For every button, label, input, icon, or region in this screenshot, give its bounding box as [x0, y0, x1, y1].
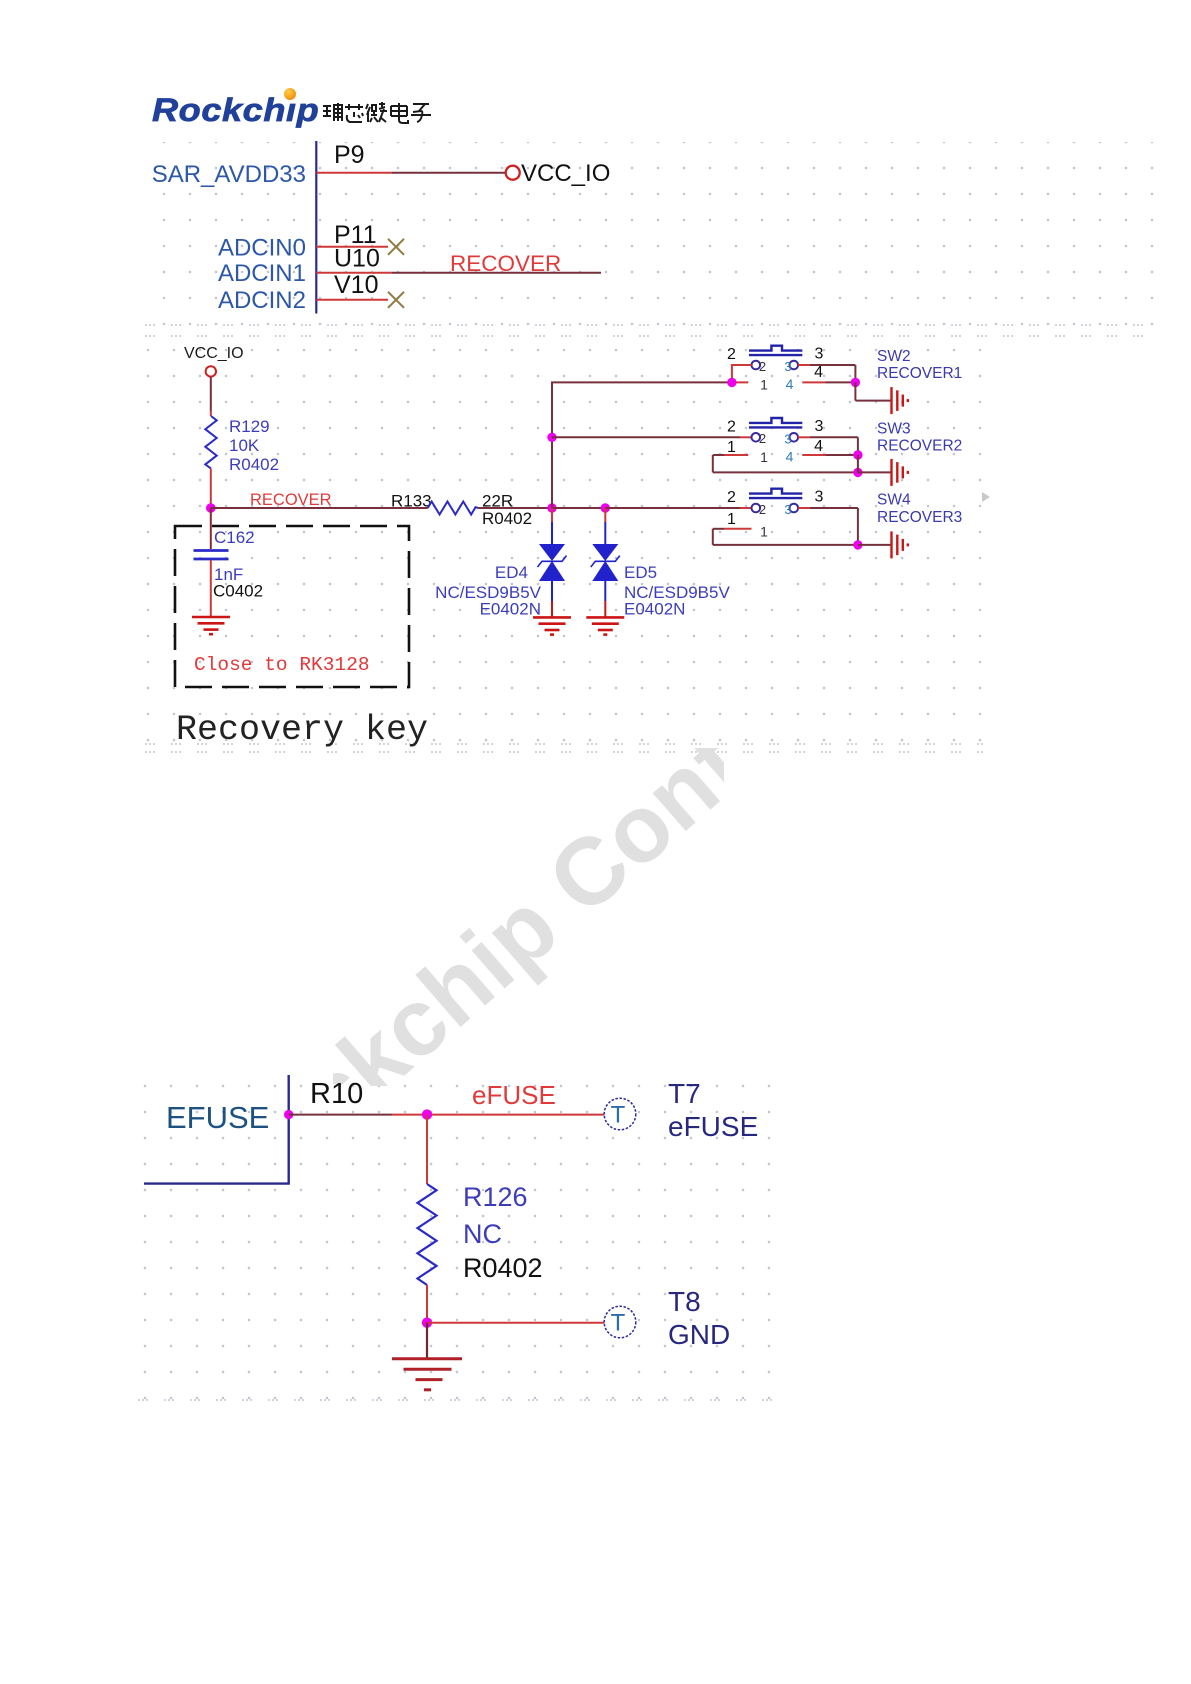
wire RECOVER mid2 [552, 507, 605, 509]
svg-text:VCC_IO: VCC_IO [521, 160, 610, 187]
ground ED4 [533, 617, 571, 634]
svg-text:R126: R126 [463, 1182, 528, 1212]
svg-text:SW4: SW4 [877, 492, 911, 509]
svg-text:GND: GND [668, 1319, 730, 1350]
svg-text:E0402N: E0402N [480, 600, 541, 619]
label SW2 RECOVER1 [877, 348, 962, 382]
pin number V10 [334, 271, 378, 299]
svg-text:1: 1 [760, 377, 768, 393]
svg-text:R0402: R0402 [463, 1253, 543, 1283]
junction SW4 gnd [853, 540, 862, 549]
wire SW3 pin1 loop [713, 455, 858, 472]
svg-text:T8: T8 [668, 1286, 701, 1317]
wire SW4 pin1 stub [713, 528, 752, 530]
svg-text:U10: U10 [334, 245, 380, 273]
svg-text:3: 3 [815, 418, 824, 435]
wire RECOVER net top [392, 272, 601, 274]
wire R126 to junction [426, 1285, 428, 1323]
esd diode ED5 [591, 508, 620, 617]
pin number R10 [310, 1078, 363, 1110]
svg-text:NC: NC [463, 1219, 502, 1249]
svg-text:RECOVER: RECOVER [450, 251, 561, 276]
svg-text:EFUSE: EFUSE [166, 1100, 269, 1135]
switch SW4 symbol [749, 489, 802, 513]
SW3 pin numbers [727, 418, 824, 456]
svg-text:RECOVER2: RECOVER2 [877, 438, 962, 455]
svg-text:3: 3 [815, 346, 824, 363]
net label eFUSE [472, 1080, 556, 1110]
svg-text:V10: V10 [334, 271, 378, 299]
ground efuse [392, 1359, 462, 1390]
wire SW2 feed [551, 381, 732, 383]
svg-text:2: 2 [759, 502, 766, 517]
svg-text:3: 3 [784, 502, 791, 517]
net label RECOVER [250, 491, 332, 509]
svg-text:RECOVER: RECOVER [250, 491, 332, 509]
svg-text:C0402: C0402 [213, 582, 263, 601]
hierarchical pin block edge (top) [315, 141, 317, 314]
bus vertical to switches [551, 382, 553, 508]
wire RECOVER to SW4 [605, 507, 752, 509]
svg-text:P9: P9 [334, 141, 365, 169]
SW4 pin numbers [727, 489, 824, 529]
logo orange dot [284, 88, 296, 100]
wire SW3 feed [552, 436, 752, 438]
wire R129 to junction [210, 469, 212, 508]
wire SW3 row2 stubs [713, 454, 858, 456]
svg-text:2: 2 [727, 489, 736, 506]
svg-text:2: 2 [727, 418, 736, 435]
pin name ADCIN2 [218, 287, 306, 314]
svg-text:ADCIN2: ADCIN2 [218, 287, 306, 314]
note Close to RK3128 [194, 654, 370, 676]
wire C162 to gnd [210, 560, 212, 617]
ground C162 [192, 617, 230, 634]
grid dots top region [145, 142, 1158, 325]
svg-text:3: 3 [815, 489, 824, 506]
junction SW3 pin4 [853, 450, 862, 459]
label SW3 RECOVER2 [877, 420, 962, 454]
junction at R129/C162 [206, 503, 216, 513]
title Recovery key [176, 710, 428, 750]
label 22R R0402 [482, 492, 532, 529]
no-connect X ADCIN2 [388, 292, 404, 308]
svg-text:T: T [611, 1310, 626, 1337]
wire SW3 junction drop [858, 455, 891, 472]
svg-text:R0402: R0402 [482, 509, 532, 528]
testpoint T8 circle [604, 1306, 636, 1338]
svg-text:1: 1 [760, 449, 768, 465]
wire RECOVER main left [211, 507, 428, 509]
wire SW2 pin3 [798, 365, 855, 382]
ground SW2 [892, 387, 908, 414]
port tick magenta [284, 1110, 293, 1119]
svg-text:VCC_IO: VCC_IO [184, 345, 244, 362]
junction T8 [422, 1318, 432, 1328]
junction SW3 feed [547, 433, 556, 442]
wire to T8 [427, 1322, 606, 1324]
power port VCC_IO (recovery section) [184, 345, 244, 362]
wire ADCIN1 stub [316, 272, 392, 274]
svg-text:Recovery key: Recovery key [176, 710, 428, 750]
pin name ADCIN1 [218, 260, 306, 287]
svg-text:4: 4 [786, 449, 794, 465]
junction SW2 left [727, 378, 736, 387]
efuse block edge [144, 1075, 289, 1184]
svg-text:R129: R129 [229, 417, 270, 436]
junction ED4 [547, 503, 556, 512]
wire SW2 pin2 bracket [732, 365, 752, 382]
svg-text:eFUSE: eFUSE [668, 1111, 758, 1142]
grid dots middle region [145, 330, 983, 758]
label ED5 [624, 563, 730, 619]
svg-text:ADCIN1: ADCIN1 [218, 260, 306, 287]
esd diode ED4 [538, 508, 567, 617]
svg-text:1: 1 [760, 524, 768, 540]
svg-text:E0402N: E0402N [624, 600, 685, 619]
svg-text:RECOVER3: RECOVER3 [877, 509, 962, 526]
switch SW2 symbol [749, 346, 802, 370]
svg-text:1: 1 [727, 439, 736, 456]
svg-text:C162: C162 [214, 528, 255, 547]
wire RECOVER mid [478, 507, 552, 509]
net label VCC_IO [521, 160, 610, 187]
svg-text:Close to RK3128: Close to RK3128 [194, 654, 370, 676]
svg-text:3: 3 [784, 359, 791, 374]
VCC_IO port circle [206, 366, 216, 376]
svg-text:ED4: ED4 [495, 563, 528, 582]
Rockchip logo [152, 92, 344, 132]
wire SW4 to ground [858, 544, 891, 546]
resistor R133 zigzag [428, 502, 478, 515]
ground SW3 [892, 459, 908, 486]
junction SW3 gnd [853, 468, 862, 477]
label R133 [391, 492, 432, 511]
svg-text:R0402: R0402 [229, 455, 279, 474]
svg-text:4: 4 [786, 376, 794, 392]
svg-text:SW2: SW2 [877, 348, 911, 365]
wire SW2 row2 stubs [732, 381, 856, 383]
svg-text:2: 2 [759, 359, 766, 374]
svg-text:10K: 10K [229, 436, 260, 455]
junction SW2 right [851, 378, 860, 387]
svg-text:4: 4 [814, 364, 823, 381]
grid dots efuse region [138, 1074, 787, 1405]
svg-text:ED5: ED5 [624, 563, 657, 582]
svg-text:T: T [611, 1102, 626, 1129]
dashed box close to RK3128 [175, 526, 409, 687]
svg-text:RECOVER1: RECOVER1 [877, 365, 962, 382]
svg-text:3: 3 [784, 432, 791, 447]
junction eFUSE [422, 1109, 432, 1119]
svg-text:R10: R10 [310, 1078, 363, 1110]
svg-text:T7: T7 [668, 1078, 701, 1109]
svg-text:eFUSE: eFUSE [472, 1080, 556, 1110]
port label EFUSE [166, 1100, 269, 1135]
wire junction down [426, 1115, 428, 1184]
junction ED5 [601, 503, 610, 512]
SW2 pin numbers [727, 346, 824, 382]
svg-text:ADCIN0: ADCIN0 [218, 235, 306, 262]
wire VCC_IO to R129 [210, 377, 212, 416]
wire SW3 pin3 [798, 437, 858, 455]
pin number P11 [334, 221, 377, 249]
switch SW3 symbol [749, 418, 802, 442]
label SW4 RECOVER3 [877, 492, 962, 526]
svg-text:SW3: SW3 [877, 420, 911, 437]
ground ED5 [586, 617, 624, 634]
testpoint T7 circle [604, 1098, 636, 1130]
net label RECOVER top [450, 251, 561, 276]
capacitor C162 plates [194, 551, 229, 560]
pin name ADCIN0 [218, 235, 306, 262]
gray arrow artifact [982, 492, 990, 502]
label T8 GND [668, 1286, 730, 1350]
wire ADCIN0 stub [316, 246, 388, 248]
pin number U10 [334, 245, 380, 273]
grid band rows [145, 324, 1158, 326]
wire SW4 pin3 [798, 508, 858, 545]
wire ADCIN2 stub [316, 299, 388, 301]
wire P9 stub [316, 172, 392, 174]
svg-text:R133: R133 [391, 492, 432, 511]
label ED4 [435, 563, 541, 619]
label T7 eFUSE [668, 1078, 758, 1142]
wire SW4 pin1 loop [713, 529, 858, 545]
watermark Rockchip Confidential (partial) [333, 748, 724, 1086]
svg-text:4: 4 [814, 438, 823, 455]
svg-text:1: 1 [727, 511, 736, 528]
wire R10 net [289, 1114, 606, 1116]
svg-text:2: 2 [759, 431, 766, 446]
wire SW2 to ground [855, 382, 891, 400]
svg-text:2: 2 [727, 346, 736, 363]
resistor R126 zigzag [418, 1184, 437, 1285]
logo chinese 瑞芯微电子 [322, 101, 432, 125]
power port VCC_IO circle [506, 166, 520, 180]
svg-text:SAR_AVDD33: SAR_AVDD33 [152, 161, 306, 188]
wire P9 net to VCC_IO [392, 172, 506, 174]
pin name SAR_AVDD33 [152, 161, 306, 188]
no-connect X ADCIN0 [388, 239, 404, 255]
label R129 10K R0402 [229, 417, 279, 474]
wire junction to C162 [210, 508, 212, 549]
label C162 1nF C0402 [213, 528, 263, 601]
ground SW4 [892, 531, 908, 558]
resistor R129 zigzag [205, 416, 216, 469]
pin number P9 [334, 141, 365, 169]
label R126 NC R0402 [463, 1182, 543, 1283]
wire to ground [426, 1323, 428, 1358]
